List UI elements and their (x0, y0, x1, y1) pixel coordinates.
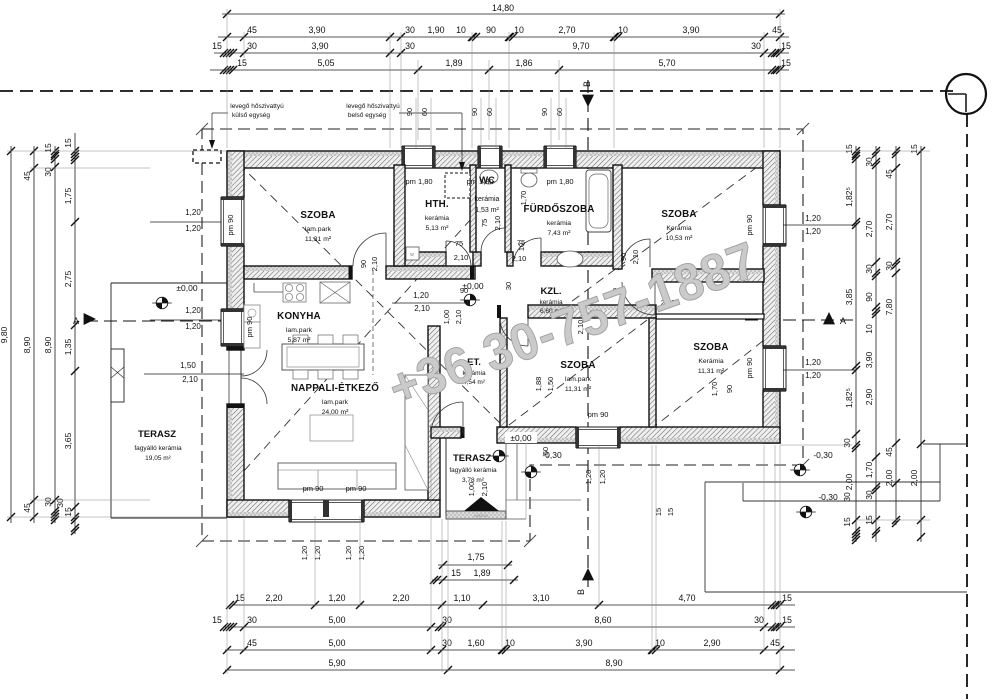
svg-text:1,20: 1,20 (344, 546, 353, 561)
side cabinet (405, 375, 428, 490)
svg-text:1,89: 1,89 (473, 568, 490, 578)
svg-text:30: 30 (405, 41, 415, 51)
svg-text:2,70: 2,70 (884, 213, 894, 230)
svg-text:1,20: 1,20 (313, 546, 322, 561)
svg-text:pm 90: pm 90 (303, 484, 324, 493)
svg-text:1,20: 1,20 (805, 358, 821, 367)
svg-text:30: 30 (442, 615, 452, 625)
svg-text:90: 90 (725, 385, 734, 393)
svg-text:2,75: 2,75 (63, 270, 73, 287)
svg-text:1,70: 1,70 (864, 461, 874, 478)
svg-text:90: 90 (619, 253, 628, 261)
svg-text:HTH.: HTH. (425, 199, 449, 210)
roof/room diagonal dashed lines (228, 153, 519, 442)
svg-text:11,31 m²: 11,31 m² (305, 236, 332, 243)
svg-text:2,90: 2,90 (703, 638, 720, 648)
svg-text:KONYHA: KONYHA (277, 311, 321, 322)
svg-text:30: 30 (247, 615, 257, 625)
svg-text:-0,30: -0,30 (818, 492, 838, 502)
svg-text:15: 15 (842, 517, 852, 527)
svg-text:15: 15 (654, 508, 663, 516)
svg-text:9,70: 9,70 (572, 41, 589, 51)
svg-text:15: 15 (63, 138, 73, 148)
svg-text:1,70: 1,70 (519, 191, 528, 206)
svg-text:3,65: 3,65 (63, 432, 73, 449)
svg-text:7,43 m²: 7,43 m² (547, 230, 571, 237)
svg-text:1,88: 1,88 (534, 377, 543, 392)
svg-text:15: 15 (781, 58, 791, 68)
svg-text:belső egység: belső egység (348, 112, 387, 119)
svg-text:pm 90: pm 90 (745, 215, 754, 236)
wc fixtures (480, 170, 498, 184)
outer wall left (227, 151, 244, 197)
svg-text:10: 10 (517, 243, 526, 251)
left door jambs (terrace door) (228, 350, 230, 404)
svg-text:1,20: 1,20 (185, 208, 201, 217)
svg-text:8,90: 8,90 (22, 336, 32, 353)
svg-text:levegő hőszivattyú: levegő hőszivattyú (230, 103, 284, 110)
svg-text:5,05: 5,05 (317, 58, 334, 68)
svg-text:1,00: 1,00 (442, 310, 451, 325)
svg-text:15: 15 (782, 593, 792, 603)
svg-text:15: 15 (237, 58, 247, 68)
left windows (221, 197, 244, 246)
terrace level line (144, 373, 244, 375)
svg-text:5,13 m²: 5,13 m² (425, 225, 449, 232)
svg-text:FÜRDŐSZOBA: FÜRDŐSZOBA (523, 203, 594, 215)
big terrace outline left (111, 282, 227, 284)
svg-text:2,10: 2,10 (480, 482, 489, 497)
svg-text:1,00: 1,00 (467, 482, 476, 497)
svg-text:30: 30 (754, 615, 764, 625)
svg-text:10: 10 (514, 25, 524, 35)
svg-text:15: 15 (451, 568, 461, 578)
svg-text:30: 30 (43, 167, 53, 177)
svg-text:levegő hőszivattyú: levegő hőszivattyú (346, 103, 400, 110)
svg-text:1,75: 1,75 (467, 552, 484, 562)
svg-text:30: 30 (504, 282, 513, 290)
property boundary dashed line (0, 90, 956, 92)
svg-text:±0,00: ±0,00 (176, 283, 197, 293)
svg-text:30: 30 (751, 41, 761, 51)
svg-text:5,00: 5,00 (328, 638, 345, 648)
svg-text:15: 15 (781, 41, 791, 51)
svg-text:2,10: 2,10 (631, 250, 640, 265)
svg-text:30: 30 (864, 157, 874, 167)
svg-text:SZOBA: SZOBA (560, 360, 595, 371)
svg-text:1,20: 1,20 (805, 214, 821, 223)
small dashed divider kitchen/dining (372, 270, 374, 375)
svg-text:2,10: 2,10 (370, 257, 379, 272)
svg-text:30: 30 (884, 261, 894, 271)
svg-text:w: w (410, 252, 414, 258)
svg-text:kerámia: kerámia (425, 215, 449, 222)
svg-text:5,87 m²: 5,87 m² (287, 337, 311, 344)
svg-text:1,20: 1,20 (805, 371, 821, 380)
svg-text:2,10: 2,10 (512, 254, 527, 263)
svg-text:TERASZ: TERASZ (138, 429, 176, 440)
svg-text:SZOBA: SZOBA (693, 342, 728, 353)
svg-text:pm 90: pm 90 (588, 410, 609, 419)
terrace column (111, 349, 124, 402)
svg-text:60: 60 (485, 108, 494, 116)
svg-text:1,60: 1,60 (467, 638, 484, 648)
svg-text:2,90: 2,90 (864, 388, 874, 405)
right side ground step lines (705, 481, 940, 483)
svg-text:15: 15 (212, 41, 222, 51)
svg-text:10: 10 (655, 638, 665, 648)
svg-text:,50: ,50 (541, 447, 550, 457)
svg-text:lam.park: lam.park (565, 376, 592, 383)
svg-text:30: 30 (43, 497, 53, 507)
top dimension chains (222, 13, 785, 15)
svg-text:pm 90: pm 90 (226, 215, 235, 236)
svg-text:1,75: 1,75 (63, 187, 73, 204)
svg-text:1,20: 1,20 (584, 470, 593, 485)
svg-text:19,05 m²: 19,05 m² (145, 455, 171, 462)
svg-text:1,89: 1,89 (445, 58, 462, 68)
svg-text:1,20: 1,20 (300, 546, 309, 561)
top windows (402, 146, 435, 168)
svg-text:1,20: 1,20 (185, 322, 201, 331)
svg-text:2,00: 2,00 (909, 469, 919, 486)
svg-text:15: 15 (235, 593, 245, 603)
svg-text:8,90: 8,90 (43, 336, 53, 353)
svg-text:kerámia: kerámia (547, 220, 571, 227)
svg-text:90: 90 (460, 286, 468, 295)
svg-text:10,53 m²: 10,53 m² (666, 235, 694, 242)
svg-text:B: B (576, 589, 586, 595)
svg-text:45: 45 (884, 169, 894, 179)
svg-text:11,31 m²: 11,31 m² (698, 368, 725, 375)
sofa (278, 463, 396, 489)
svg-text:2,10: 2,10 (454, 310, 463, 325)
svg-text:45: 45 (22, 171, 32, 181)
svg-text:pm 90: pm 90 (346, 484, 367, 493)
svg-text:45: 45 (22, 503, 32, 513)
svg-text:pm 1,80: pm 1,80 (405, 177, 432, 186)
kitchen counters (254, 291, 283, 293)
svg-text:45: 45 (247, 25, 257, 35)
svg-text:3,90: 3,90 (682, 25, 699, 35)
svg-text:2,10: 2,10 (414, 304, 430, 313)
svg-text:bejárat: bejárat (474, 513, 489, 518)
svg-text:30: 30 (864, 490, 874, 500)
svg-text:11,31 m²: 11,31 m² (565, 386, 592, 393)
svg-text:pm 90: pm 90 (245, 317, 254, 338)
svg-text:SZOBA: SZOBA (300, 210, 335, 221)
svg-text:15: 15 (212, 615, 222, 625)
svg-text:Kerámia: Kerámia (698, 358, 724, 365)
svg-text:1,20: 1,20 (185, 306, 201, 315)
svg-text:1,90: 1,90 (427, 25, 444, 35)
right witness lines (780, 150, 930, 152)
svg-text:10: 10 (618, 25, 628, 35)
svg-text:1,82⁵: 1,82⁵ (844, 187, 854, 207)
mini chain below porch (438, 564, 512, 566)
double door living room (241, 350, 267, 376)
bottom witness lines (226, 519, 228, 674)
svg-text:3,90: 3,90 (575, 638, 592, 648)
dining table and chairs (282, 344, 364, 370)
svg-text:4,70: 4,70 (678, 593, 695, 603)
svg-text:75: 75 (455, 239, 463, 248)
svg-text:30: 30 (247, 41, 257, 51)
svg-text:A: A (840, 316, 846, 326)
svg-text:pm 1,80: pm 1,80 (466, 177, 493, 186)
svg-text:5,90: 5,90 (328, 658, 345, 668)
svg-text:2,00: 2,00 (844, 473, 854, 490)
svg-text:KZL.: KZL. (540, 286, 561, 297)
svg-text:B: B (582, 81, 592, 87)
left dimension chains (10, 146, 12, 523)
svg-text:3,85: 3,85 (844, 288, 854, 305)
svg-text:2,10: 2,10 (493, 216, 502, 231)
svg-text:1,35: 1,35 (63, 338, 73, 355)
bottom dimension chains (232, 604, 795, 606)
svg-text:1,20: 1,20 (328, 593, 345, 603)
bottom wall right section (497, 427, 576, 443)
svg-text:90: 90 (486, 25, 496, 35)
svg-text:30: 30 (842, 438, 852, 448)
hth washing machine (406, 247, 419, 260)
svg-text:90: 90 (540, 108, 549, 116)
svg-text:8,90: 8,90 (605, 658, 622, 668)
outer wall top (227, 151, 780, 168)
svg-text:1,20: 1,20 (413, 291, 429, 300)
top witness lines (226, 9, 228, 148)
svg-text:SZOBA: SZOBA (661, 209, 696, 220)
svg-text:lam.park: lam.park (322, 399, 349, 406)
svg-text:TERASZ: TERASZ (453, 453, 491, 464)
svg-text:1,70: 1,70 (710, 382, 719, 397)
svg-text:9,80: 9,80 (0, 326, 9, 343)
svg-text:75: 75 (480, 219, 489, 227)
svg-text:pm 1,80: pm 1,80 (546, 177, 573, 186)
svg-text:-0,30: -0,30 (813, 450, 833, 460)
svg-text:3,90: 3,90 (864, 351, 874, 368)
svg-text:2,70: 2,70 (864, 220, 874, 237)
svg-text:1,50: 1,50 (546, 377, 555, 392)
svg-text:15: 15 (909, 144, 919, 154)
section line A-A (85, 320, 226, 322)
svg-text:15: 15 (844, 144, 854, 154)
svg-text:30: 30 (842, 492, 852, 502)
svg-text:±0,00: ±0,00 (510, 433, 531, 443)
boundary corner circle (946, 74, 986, 114)
room2 bottom wall (652, 269, 764, 282)
section line B-B (587, 80, 589, 592)
svg-text:1,86: 1,86 (515, 58, 532, 68)
svg-text:2,70: 2,70 (558, 25, 575, 35)
svg-text:10: 10 (456, 25, 466, 35)
corridor south wall / middle room top (528, 305, 656, 318)
svg-text:30: 30 (55, 498, 65, 508)
svg-text:pm 90: pm 90 (745, 358, 754, 379)
svg-text:60: 60 (420, 108, 429, 116)
svg-text:24,00 m²: 24,00 m² (322, 409, 350, 416)
svg-text:lam.park: lam.park (305, 226, 332, 233)
middle room side walls (500, 318, 507, 427)
svg-text:10: 10 (505, 638, 515, 648)
eaves dashed outline (202, 129, 803, 541)
svg-text:fagyálló kerámia: fagyálló kerámia (449, 467, 497, 474)
svg-text:8,60: 8,60 (594, 615, 611, 625)
room1 bottom wall / kitchen top (244, 266, 352, 279)
svg-text:30: 30 (864, 264, 874, 274)
svg-text:1,53 m²: 1,53 m² (475, 207, 499, 214)
svg-text:Kerámia: Kerámia (666, 225, 692, 232)
svg-text:15: 15 (782, 615, 792, 625)
svg-text:külső egység: külső egység (232, 112, 270, 119)
svg-text:90: 90 (470, 108, 479, 116)
svg-text:NAPPALI-ÉTKEZŐ: NAPPALI-ÉTKEZŐ (291, 382, 379, 394)
svg-text:2,10: 2,10 (454, 253, 469, 262)
porch bottom step band (446, 511, 506, 519)
svg-text:kerámia: kerámia (475, 196, 500, 203)
svg-text:1,10: 1,10 (453, 593, 470, 603)
svg-text:30: 30 (405, 25, 415, 35)
svg-text:30: 30 (442, 638, 452, 648)
svg-text:90: 90 (864, 292, 874, 302)
svg-text:2,20: 2,20 (265, 593, 282, 603)
svg-text:1,20: 1,20 (185, 224, 201, 233)
right dimension chains (855, 146, 857, 542)
svg-text:1,82⁵: 1,82⁵ (844, 388, 854, 408)
entry arrow bejarat (464, 497, 499, 511)
svg-text:fagyálló kerámia: fagyálló kerámia (134, 445, 182, 452)
svg-text:5,00: 5,00 (328, 615, 345, 625)
entry porch walls (428, 326, 440, 500)
svg-text:45: 45 (247, 638, 257, 648)
svg-text:3,90: 3,90 (308, 25, 325, 35)
svg-text:2,20: 2,20 (392, 593, 409, 603)
rug (310, 415, 353, 441)
right windows (763, 205, 786, 246)
svg-text:1,50: 1,50 (180, 361, 196, 370)
svg-text:45: 45 (772, 25, 782, 35)
svg-text:3,10: 3,10 (532, 593, 549, 603)
svg-text:14,80: 14,80 (492, 3, 514, 13)
bottom wall living room (227, 500, 289, 517)
svg-text:45: 45 (770, 638, 780, 648)
svg-text:60: 60 (555, 108, 564, 116)
outer wall right (763, 151, 780, 205)
svg-text:2,00: 2,00 (884, 469, 894, 486)
svg-text:1,20: 1,20 (357, 546, 366, 561)
svg-text:90: 90 (405, 108, 414, 116)
svg-text:15: 15 (666, 508, 675, 516)
svg-text:45: 45 (884, 447, 894, 457)
svg-text:3,90: 3,90 (311, 41, 328, 51)
svg-text:lam.park: lam.park (286, 327, 313, 334)
left witness lines (7, 150, 227, 152)
heat pump outdoor unit (193, 150, 221, 163)
svg-text:7,80: 7,80 (884, 298, 894, 315)
svg-text:1,20: 1,20 (805, 227, 821, 236)
bathroom fixtures (586, 170, 611, 232)
svg-text:10: 10 (864, 324, 874, 334)
svg-text:1,20: 1,20 (598, 470, 607, 485)
svg-text:15: 15 (43, 143, 53, 153)
watermark (381, 230, 765, 418)
heat pump indoor unit (445, 173, 470, 198)
door arcs (446, 241, 471, 266)
interior walls: bath row bottom (394, 252, 446, 266)
svg-text:90: 90 (359, 260, 368, 268)
svg-text:2,10: 2,10 (182, 375, 198, 384)
svg-text:5,70: 5,70 (658, 58, 675, 68)
